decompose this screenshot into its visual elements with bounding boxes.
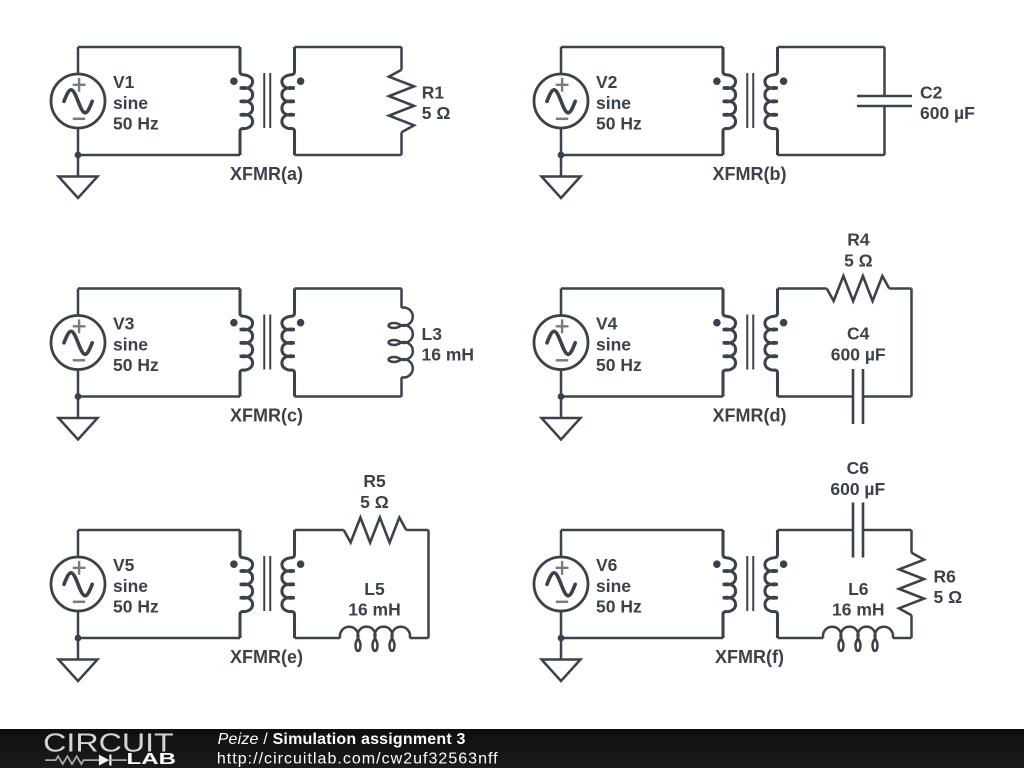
resistor R6	[899, 553, 924, 616]
transformer XFMR(a) secondary winding	[282, 47, 295, 155]
transformer XFMR(c) secondary polarity dot	[297, 319, 305, 327]
svg-text:50 Hz: 50 Hz	[113, 596, 159, 616]
svg-text:L3: L3	[422, 324, 443, 344]
wire	[77, 289, 80, 316]
node junction	[558, 635, 565, 642]
wire	[561, 287, 723, 290]
svg-text:sine: sine	[596, 93, 631, 113]
wire	[400, 289, 403, 308]
voltage source V3	[51, 316, 105, 370]
node junction	[558, 393, 565, 400]
wire	[561, 395, 723, 398]
ground	[542, 397, 581, 440]
transformer XFMR(a) primary polarity dot	[230, 77, 238, 85]
svg-text:50 Hz: 50 Hz	[596, 113, 642, 133]
wire	[295, 395, 402, 398]
svg-text:V6: V6	[596, 555, 618, 575]
transformer XFMR(e) primary winding	[240, 530, 253, 638]
transformer XFMR(b) secondary polarity dot	[780, 77, 788, 85]
svg-text:5 Ω: 5 Ω	[422, 103, 451, 123]
transformer XFMR(b) secondary winding	[765, 47, 778, 155]
wire	[295, 154, 402, 157]
circuit d: V4 with transformer XFMR(d), resistor R4 and capacitor C4	[534, 230, 912, 440]
wire	[883, 106, 886, 155]
circuit c: V3 with transformer XFMR(c) and inductor L3	[51, 289, 474, 440]
transformer XFMR(f) primary polarity dot	[713, 560, 721, 568]
svg-text:16 mH: 16 mH	[422, 345, 475, 365]
inductor L5	[340, 627, 410, 651]
node junction	[75, 393, 82, 400]
svg-text:16 mH: 16 mH	[348, 600, 401, 620]
wire	[410, 637, 429, 640]
wire	[778, 46, 885, 49]
svg-text:50 Hz: 50 Hz	[596, 596, 642, 616]
circuit a: V1 with transformer XFMR(a) and resistor R1	[51, 47, 450, 198]
svg-text:XFMR(e): XFMR(e)	[230, 647, 303, 667]
capacitor C4	[853, 369, 863, 424]
wire	[560, 370, 563, 397]
wire	[295, 637, 341, 640]
wire	[561, 154, 723, 157]
svg-text:5 Ω: 5 Ω	[844, 251, 873, 271]
wire	[778, 154, 885, 157]
wire	[406, 529, 428, 532]
voltage source V2	[534, 74, 588, 128]
wire	[889, 287, 911, 290]
voltage source V5	[51, 557, 105, 611]
ground	[59, 397, 98, 440]
logo resistor	[45, 756, 99, 764]
transformer XFMR(d) secondary polarity dot	[780, 319, 788, 327]
transformer XFMR(a) core	[264, 73, 270, 128]
svg-text:Peize / Simulation assignment: Peize / Simulation assignment 3	[218, 731, 466, 748]
svg-text:sine: sine	[113, 576, 148, 596]
wire	[778, 529, 854, 532]
svg-text:sine: sine	[113, 93, 148, 113]
wire	[560, 530, 563, 557]
transformer XFMR(b) primary winding	[723, 47, 736, 155]
wire	[400, 47, 403, 70]
ground	[59, 155, 98, 198]
transformer XFMR(a) secondary polarity dot	[297, 77, 305, 85]
transformer XFMR(a) primary winding	[240, 47, 253, 155]
svg-text:sine: sine	[596, 576, 631, 596]
wire	[778, 637, 824, 640]
svg-text:C2: C2	[920, 83, 943, 103]
logo diode	[99, 755, 127, 766]
transformer XFMR(e) core	[264, 556, 270, 611]
wire	[295, 46, 402, 49]
wire	[77, 611, 80, 638]
wire	[560, 611, 563, 638]
ground	[59, 638, 98, 681]
svg-text:5 Ω: 5 Ω	[934, 587, 963, 607]
svg-text:R1: R1	[422, 83, 445, 103]
wire	[561, 46, 723, 49]
svg-text:sine: sine	[113, 334, 148, 354]
svg-text:XFMR(d): XFMR(d)	[713, 406, 787, 426]
circuit e: V5 with transformer XFMR(e), resistor R5 and inductor L5	[51, 471, 429, 681]
wire	[561, 637, 723, 640]
svg-text:L5: L5	[364, 579, 385, 599]
resistor R4	[827, 276, 890, 301]
transformer XFMR(f) primary winding	[723, 530, 736, 638]
node junction	[75, 635, 82, 642]
wire	[295, 287, 402, 290]
svg-text:XFMR(c): XFMR(c)	[230, 406, 303, 426]
inductor L3	[389, 308, 413, 378]
node junction	[558, 152, 565, 159]
circuit b: V2 with transformer XFMR(b) and capacitor C2	[534, 47, 975, 198]
wire	[560, 47, 563, 74]
svg-text:XFMR(b): XFMR(b)	[713, 164, 787, 184]
wire	[778, 395, 854, 398]
wire	[78, 287, 240, 290]
wire	[400, 377, 403, 396]
resistor R1	[389, 70, 414, 133]
transformer XFMR(c) primary polarity dot	[230, 319, 238, 327]
transformer XFMR(c) primary winding	[240, 289, 253, 397]
svg-text:V5: V5	[113, 555, 135, 575]
wire	[295, 529, 344, 532]
wire	[910, 530, 913, 553]
svg-text:R4: R4	[847, 230, 870, 250]
node junction	[75, 152, 82, 159]
svg-text:http://circuitlab.com/cw2uf325: http://circuitlab.com/cw2uf32563nff	[217, 751, 499, 768]
svg-text:XFMR(f): XFMR(f)	[715, 647, 784, 667]
wire	[778, 287, 827, 290]
voltage source V6	[534, 557, 588, 611]
capacitor C6	[853, 503, 863, 558]
svg-text:LAB: LAB	[127, 751, 177, 768]
voltage source V4	[534, 316, 588, 370]
svg-text:V2: V2	[596, 72, 618, 92]
transformer XFMR(b) core	[747, 73, 753, 128]
svg-text:5 Ω: 5 Ω	[360, 492, 389, 512]
circuit f: V6 with transformer XFMR(f), capacitor C6, inductor L6 and resistor R6	[534, 458, 962, 681]
wire	[78, 46, 240, 49]
wire	[561, 529, 723, 532]
svg-text:50 Hz: 50 Hz	[596, 355, 642, 375]
wire	[910, 289, 913, 397]
transformer XFMR(e) secondary polarity dot	[297, 560, 305, 568]
wire	[78, 529, 240, 532]
transformer XFMR(f) secondary winding	[765, 530, 778, 638]
wire	[78, 637, 240, 640]
transformer XFMR(c) core	[264, 315, 270, 370]
transformer XFMR(d) secondary winding	[765, 289, 778, 397]
wire	[78, 154, 240, 157]
transformer XFMR(b) primary polarity dot	[713, 77, 721, 85]
svg-text:V3: V3	[113, 313, 135, 333]
wire	[560, 128, 563, 155]
svg-text:sine: sine	[596, 334, 631, 354]
wire	[77, 530, 80, 557]
wire	[910, 615, 913, 638]
wire	[77, 47, 80, 74]
svg-text:C4: C4	[847, 324, 870, 344]
wire	[427, 530, 430, 638]
svg-text:V4: V4	[596, 313, 618, 333]
svg-text:R5: R5	[363, 471, 386, 491]
svg-text:V1: V1	[113, 72, 135, 92]
wire	[77, 370, 80, 397]
wire	[893, 637, 912, 640]
capacitor C2	[857, 96, 912, 106]
wire	[883, 47, 886, 96]
svg-text:XFMR(a): XFMR(a)	[230, 164, 303, 184]
svg-text:600 µF: 600 µF	[830, 479, 885, 499]
transformer XFMR(d) primary winding	[723, 289, 736, 397]
wire	[77, 128, 80, 155]
inductor L6	[823, 627, 893, 651]
svg-text:R6: R6	[934, 566, 957, 586]
transformer XFMR(c) secondary winding	[282, 289, 295, 397]
svg-text:50 Hz: 50 Hz	[113, 113, 159, 133]
transformer XFMR(f) secondary polarity dot	[780, 560, 788, 568]
svg-text:L6: L6	[848, 579, 869, 599]
wire	[78, 395, 240, 398]
transformer XFMR(f) core	[747, 556, 753, 611]
footer bar	[0, 729, 1024, 768]
resistor R5	[344, 518, 407, 543]
transformer XFMR(e) primary polarity dot	[230, 560, 238, 568]
svg-text:16 mH: 16 mH	[832, 600, 885, 620]
ground	[542, 155, 581, 198]
svg-text:600 µF: 600 µF	[831, 345, 886, 365]
ground	[542, 638, 581, 681]
svg-text:50 Hz: 50 Hz	[113, 355, 159, 375]
voltage source V1	[51, 74, 105, 128]
wire	[400, 132, 403, 155]
svg-text:600 µF: 600 µF	[920, 103, 975, 123]
wire	[863, 395, 912, 398]
wire	[863, 529, 912, 532]
transformer XFMR(d) primary polarity dot	[713, 319, 721, 327]
wire	[560, 289, 563, 316]
transformer XFMR(d) core	[747, 315, 753, 370]
transformer XFMR(e) secondary winding	[282, 530, 295, 638]
svg-text:C6: C6	[847, 458, 870, 478]
